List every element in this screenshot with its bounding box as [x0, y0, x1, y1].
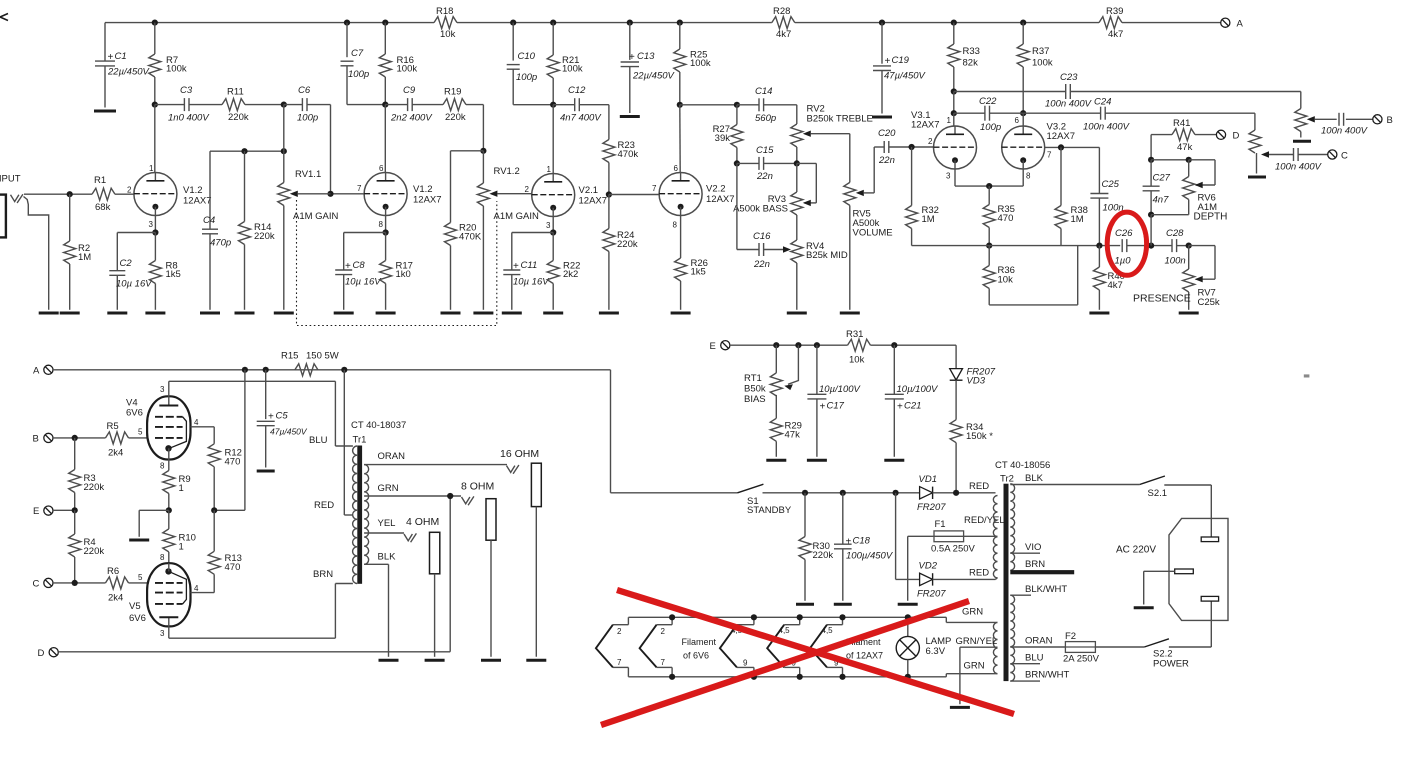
wire R1 to V1a grid [115, 193, 134, 195]
wire R36 to NFB line [989, 246, 1077, 305]
svg-text:RED: RED [969, 568, 989, 579]
jack 16 OHM tip [507, 465, 519, 474]
capacitor C1 [95, 23, 151, 108]
svg-text:1k5: 1k5 [166, 269, 181, 280]
wire node to C15 [737, 162, 759, 164]
node VD1 anode [893, 490, 899, 496]
node R9/R10 [166, 507, 172, 513]
svg-text:39k: 39k [715, 133, 731, 144]
svg-text:100k: 100k [690, 58, 711, 69]
capacitor C8 [335, 260, 382, 310]
label Filament of 12AX7 [846, 637, 883, 661]
terminal C (power) [33, 578, 54, 589]
transformer Tr1 secondary [364, 465, 369, 565]
wire node to R20 [451, 151, 484, 223]
ground (mains earth) [1134, 606, 1154, 609]
resistor R5 [106, 421, 129, 459]
svg-text:STANDBY: STANDBY [747, 505, 792, 516]
terminal D (power) [38, 648, 59, 659]
svg-text:100k: 100k [166, 64, 187, 75]
pin 9 (filament 5) [834, 659, 839, 668]
wire C9 to R19 [412, 104, 443, 106]
resistor R39 [1099, 6, 1123, 40]
pin 3 V1a [149, 220, 154, 229]
ground (R40) [1089, 312, 1109, 315]
svg-text:V2.1: V2.1 [579, 185, 599, 196]
beam tetrode V5 [129, 563, 191, 626]
capacitor C24 [1083, 97, 1131, 133]
wire grid to V2.2 [609, 194, 659, 196]
switch S2.2 POWER [1144, 639, 1189, 670]
svg-text:8: 8 [160, 553, 165, 562]
svg-text:4k7: 4k7 [1108, 29, 1123, 40]
svg-text:A: A [33, 366, 40, 377]
svg-text:10k: 10k [998, 275, 1014, 286]
wire cathode to C11 [512, 233, 553, 271]
svg-text:100p: 100p [516, 72, 537, 83]
resistor R28 [772, 6, 795, 40]
svg-text:1n0 400V: 1n0 400V [168, 113, 210, 124]
svg-text:C11: C11 [521, 260, 538, 271]
svg-text:16 OHM: 16 OHM [500, 448, 539, 460]
resistor R22 [547, 233, 580, 310]
wire earth pin [1144, 571, 1175, 604]
wire A rail to standby [611, 370, 738, 493]
resistor R13 [208, 510, 242, 592]
svg-text:C6: C6 [298, 85, 311, 96]
ground (R17) [376, 312, 396, 315]
resistor R3 [69, 438, 105, 510]
svg-text:RT1: RT1 [744, 373, 762, 384]
node R25 top [677, 20, 683, 26]
capacitor C9 [390, 85, 433, 124]
svg-text:B25k MID: B25k MID [806, 250, 848, 261]
svg-text:2A 250V: 2A 250V [1063, 654, 1100, 665]
ground (R26) [671, 312, 691, 315]
svg-text:R28: R28 [773, 6, 790, 17]
svg-text:C26: C26 [1115, 228, 1133, 239]
svg-text:7: 7 [661, 658, 666, 667]
svg-text:12AX7: 12AX7 [183, 196, 212, 207]
wire Tr1 center tap [344, 370, 353, 515]
triode V2.1 [532, 174, 607, 217]
resistor R16 [379, 23, 417, 105]
wire ORAN tap [364, 451, 507, 465]
resistor R21 [547, 23, 583, 105]
svg-text:DEPTH: DEPTH [1194, 212, 1228, 223]
svg-text:+: + [897, 402, 903, 413]
svg-text:470p: 470p [210, 238, 231, 249]
resistor R26 [675, 216, 708, 310]
wire C20 to V3.1 grid [889, 146, 934, 148]
resistor R25 [674, 23, 711, 105]
svg-text:22n: 22n [878, 155, 895, 166]
ground (C17) [807, 459, 827, 462]
jack tip contact [11, 194, 23, 203]
switch S1 STANDBY [738, 484, 792, 516]
capacitor C23 [1045, 72, 1093, 110]
wire C to R6 [53, 582, 106, 584]
ground (C5) [257, 470, 275, 473]
wire RV1.1 column [283, 105, 285, 152]
node filament 3 top [751, 614, 757, 620]
svg-text:C: C [1341, 151, 1348, 162]
potentiometer RV1.2 [477, 151, 539, 310]
terminal E (bias) [710, 341, 730, 352]
svg-text:RED: RED [314, 500, 334, 511]
pin 3 V5 [160, 629, 165, 638]
wire RV6 bottom [1151, 214, 1189, 216]
node V3.2 grid / R38 [1058, 144, 1064, 150]
pin 3 V2.1 [546, 221, 551, 230]
svg-text:1: 1 [179, 542, 184, 553]
triode V2.2 [659, 173, 734, 216]
wire V2.1 cathode [552, 217, 554, 233]
capacitor C6 [297, 85, 318, 124]
svg-text:220k: 220k [228, 112, 249, 123]
ground (C1) [94, 110, 116, 113]
svg-text:R18: R18 [436, 6, 453, 17]
pin 7 V3.2 [1047, 151, 1052, 160]
wire C3 to R11 [189, 104, 222, 106]
svg-text:47µ/450V: 47µ/450V [884, 71, 927, 82]
ground (R22) [543, 312, 563, 315]
svg-text:VD2: VD2 [919, 561, 938, 572]
svg-text:C25: C25 [1102, 179, 1120, 190]
resistor R41 [1151, 118, 1216, 153]
svg-text:1k5: 1k5 [691, 267, 706, 278]
svg-text:8: 8 [160, 462, 165, 471]
capacitor C5 [257, 370, 308, 468]
svg-text:4,5: 4,5 [779, 626, 791, 635]
ground (R29) [766, 459, 786, 462]
svg-text:B50k: B50k [744, 384, 766, 395]
wire E to node [53, 509, 75, 511]
svg-text:C8: C8 [353, 260, 366, 271]
svg-text:GRN/YEL: GRN/YEL [956, 636, 998, 647]
svg-text:R19: R19 [444, 87, 461, 98]
svg-text:4k7: 4k7 [776, 29, 791, 40]
svg-text:C27: C27 [1153, 173, 1171, 184]
svg-text:7: 7 [1047, 151, 1052, 160]
capacitor C26 [1115, 228, 1134, 267]
node V2.1 cathode [550, 229, 556, 235]
svg-text:1M: 1M [922, 214, 935, 225]
node V3.2 plate / C24 [1020, 110, 1026, 116]
wire C7 to node [347, 104, 385, 106]
wire C15 to RV3 node [764, 162, 797, 164]
svg-text:R41: R41 [1173, 118, 1190, 129]
capacitor C15 [756, 145, 774, 182]
resistor R40 [1093, 246, 1125, 310]
svg-text:6V6: 6V6 [129, 613, 146, 624]
capacitor C27 [1143, 160, 1171, 215]
label BRN (Tr1) [313, 569, 333, 580]
pin 6 V2.2 [674, 164, 679, 173]
jack 4 OHM tip [404, 533, 416, 542]
resistor R17 [380, 233, 413, 310]
wire VD2 anode column [896, 493, 920, 580]
wire grid-leak bus [210, 151, 284, 229]
wire screens riser [214, 370, 245, 511]
svg-text:INPUT: INPUT [0, 174, 21, 185]
wire V2.2 plate [679, 105, 681, 173]
label GRN (bottom) [964, 661, 985, 672]
label BRN/WHT lead [1010, 670, 1069, 682]
node C27/RV6 bottom [1148, 212, 1154, 218]
filament V5 (6V6) [640, 617, 673, 677]
resistor R34 [950, 420, 993, 493]
potentiometer RV5 [844, 182, 893, 309]
svg-text:C2: C2 [120, 258, 133, 269]
diode VD2 FR207 [917, 561, 946, 600]
wire V1b cathode [385, 216, 387, 233]
pin 8 V5 [160, 553, 165, 562]
wire GRN tap [364, 483, 461, 496]
label BLK/WHT lead [1010, 584, 1067, 595]
label GRN (top) [962, 607, 983, 618]
ground (R20) [441, 312, 461, 315]
potentiometer RV1.1 [278, 151, 339, 310]
wire RV1.1 wiper [298, 193, 331, 195]
pin 8 V4 [160, 462, 165, 471]
wire R5 to V4 grid [129, 437, 148, 439]
resistor R37 [1017, 23, 1053, 114]
wire A rail [53, 369, 611, 371]
wire B+ rail segment 3 [795, 22, 1099, 24]
svg-text:7: 7 [357, 184, 362, 193]
node V1b plate [382, 102, 388, 108]
wire bias rail [730, 344, 848, 346]
svg-text:10µ/100V: 10µ/100V [819, 384, 862, 395]
svg-text:2: 2 [525, 185, 530, 194]
svg-text:GRN: GRN [378, 483, 399, 494]
node lamp bottom [905, 674, 911, 680]
pin 5 V5 [138, 573, 143, 582]
speaker jack 4 OHM [406, 516, 440, 657]
svg-text:4 OHM: 4 OHM [406, 516, 439, 528]
ground (F1) [898, 603, 918, 606]
svg-text:C5: C5 [276, 411, 289, 422]
wire C28 to RV7 [1177, 245, 1189, 247]
svg-text:8: 8 [379, 220, 384, 229]
ground (RV5) [840, 312, 860, 315]
svg-text:12AX7: 12AX7 [911, 120, 940, 131]
pin 1 V1a [149, 164, 154, 173]
svg-text:+: + [108, 52, 114, 63]
wire VD2 to Tr2 RED [933, 578, 998, 580]
wire S2.1 to plug [1164, 485, 1211, 537]
node filament 4 bottom [797, 674, 803, 680]
capacitor C14 [755, 86, 776, 124]
svg-text:+: + [513, 261, 519, 272]
svg-text:9: 9 [743, 659, 748, 668]
svg-text:PRESENCE: PRESENCE [1133, 293, 1191, 305]
wire cathode to C2 [117, 233, 155, 271]
svg-text:RED: RED [969, 481, 989, 492]
svg-text:6: 6 [379, 164, 384, 173]
wire plate node to tone stack [680, 104, 737, 106]
node RT1 top [773, 342, 779, 348]
resistor R38 [1055, 147, 1088, 245]
pin 4,5 (filament 4) [779, 626, 791, 635]
wire C16 branch [737, 163, 759, 249]
node filament 5 bottom [839, 674, 845, 680]
ground (B pot) [1293, 140, 1311, 143]
svg-text:of 12AX7: of 12AX7 [846, 651, 883, 661]
wire R33 node to C22 node [953, 92, 955, 114]
svg-text:3: 3 [160, 629, 165, 638]
capacitor C21 [885, 345, 939, 457]
node R1/R2 [67, 191, 73, 197]
svg-text:BRN: BRN [313, 569, 333, 580]
resistor R14 [239, 151, 275, 310]
svg-text:+: + [846, 537, 852, 548]
svg-text:A1M GAIN: A1M GAIN [293, 211, 339, 222]
red cross line 2 [601, 601, 969, 725]
potentiometer RV3 [733, 163, 811, 215]
node filament 5 top [839, 614, 845, 620]
svg-text:R15: R15 [281, 351, 298, 362]
svg-text:47µ/450V: 47µ/450V [270, 427, 308, 437]
terminal B (power) [33, 433, 54, 444]
svg-text:100n 400V: 100n 400V [1321, 126, 1369, 137]
transformer Tr2 secondary RED winding [993, 496, 997, 579]
ground (4 OHM) [425, 659, 445, 662]
wire node to C6 [284, 104, 303, 106]
svg-text:7: 7 [617, 658, 622, 667]
svg-text:C9: C9 [403, 85, 416, 96]
pin 6 V3.2 [1015, 116, 1020, 125]
wire V1a plate [154, 105, 156, 173]
svg-text:1: 1 [947, 116, 952, 125]
svg-text:470: 470 [998, 213, 1014, 224]
svg-text:470: 470 [225, 457, 241, 468]
svg-text:3: 3 [546, 221, 551, 230]
potentiometer (C out) [1249, 130, 1269, 174]
ground (R14) [235, 312, 255, 315]
svg-text:C13: C13 [637, 51, 655, 62]
svg-text:220k: 220k [84, 546, 105, 557]
triode V3.2 [1002, 122, 1075, 170]
svg-text:100n 400V: 100n 400V [1045, 99, 1093, 110]
svg-text:RV1.1: RV1.1 [295, 169, 321, 180]
wire BLK lead [1010, 473, 1139, 485]
svg-text:12AX7: 12AX7 [413, 195, 442, 206]
label RED (Tr1 CT) [314, 500, 334, 511]
AC plug outline [1116, 518, 1228, 620]
capacitor C25 [1090, 147, 1123, 245]
lamp 6.3V [896, 617, 951, 677]
node R3/R5 [72, 435, 78, 441]
resistor R11 [222, 87, 249, 124]
wire YEL tap [364, 518, 404, 533]
svg-text:+: + [820, 402, 826, 413]
ground (RV7) [1179, 312, 1199, 315]
node filament 3 bottom [751, 674, 757, 680]
ground (C19) [872, 116, 892, 119]
potentiometer RV7 [1183, 246, 1220, 310]
ground (C8) [334, 312, 354, 315]
svg-text:220k: 220k [84, 482, 105, 493]
ground (R30) [796, 603, 814, 606]
capacitor C13 [621, 23, 676, 113]
svg-text:C12: C12 [568, 85, 586, 96]
wire B+ rail segment 4 [1122, 22, 1221, 24]
svg-text:Tr1: Tr1 [353, 435, 367, 446]
wire GRN/YEL center tap [956, 636, 998, 704]
capacitor C2 [109, 258, 153, 310]
AC plug pin top [1201, 537, 1218, 542]
triode V1a [134, 173, 212, 216]
pin 1 V2.1 [547, 165, 552, 174]
svg-text:B: B [33, 434, 39, 445]
svg-text:C19: C19 [892, 55, 910, 66]
svg-text:VD1: VD1 [919, 474, 937, 485]
terminal D (depth) [1216, 130, 1239, 141]
pin 4,5 (filament 3) [731, 626, 743, 635]
pin 8 V2.2 [673, 221, 678, 230]
svg-text:100µ/450V: 100µ/450V [846, 551, 894, 562]
node V1b grid [327, 191, 333, 197]
svg-text:ORAN: ORAN [1025, 636, 1053, 647]
pin 7 V1b [357, 184, 362, 193]
ground (RV1.1) [274, 312, 294, 315]
wire F1 to ground [908, 536, 934, 601]
node C10 top [510, 20, 516, 26]
node C18 top [840, 490, 846, 496]
svg-text:V5: V5 [129, 601, 141, 612]
svg-text:1: 1 [179, 483, 184, 494]
svg-text:FR207: FR207 [917, 589, 946, 600]
node Tr1 CT riser [341, 367, 347, 373]
svg-text:10µ/100V: 10µ/100V [897, 384, 940, 395]
potentiometer RV2 [791, 104, 873, 164]
node lamp top [905, 614, 911, 620]
svg-text:100k: 100k [562, 64, 583, 75]
ground (jack sleeve) [39, 312, 59, 315]
svg-text:2: 2 [928, 137, 933, 146]
terminal E (power) [33, 506, 53, 517]
resistor R35 [983, 186, 1015, 246]
label RED/YEL [964, 515, 1005, 526]
svg-text:C16: C16 [753, 231, 771, 242]
svg-text:2k2: 2k2 [563, 269, 578, 280]
svg-text:47k: 47k [785, 430, 801, 441]
node B+ / R7 top [152, 20, 158, 26]
svg-text:C20: C20 [878, 128, 896, 139]
node C19 top [879, 20, 885, 26]
node C25/R40 [1096, 243, 1102, 249]
wire B+ rail segment 1 [105, 22, 434, 24]
svg-text:B: B [1387, 115, 1393, 126]
svg-text:82k: 82k [963, 58, 979, 69]
wire C12 chain [553, 104, 575, 106]
fuse F2 [1063, 631, 1100, 665]
ground (RV4) [787, 312, 807, 315]
resistor R33 [948, 23, 980, 92]
svg-text:6: 6 [674, 164, 679, 173]
svg-text:BRN/WHT: BRN/WHT [1025, 670, 1070, 681]
resistor R8 [149, 233, 180, 310]
svg-text:2: 2 [617, 627, 622, 636]
svg-text:2k4: 2k4 [108, 593, 123, 604]
pin 3 V4 [160, 385, 165, 394]
node screen riser [242, 367, 248, 373]
speaker jack 16 OHM [500, 448, 541, 657]
wire node to C14 [737, 104, 759, 106]
capacitor C3 [168, 85, 210, 124]
